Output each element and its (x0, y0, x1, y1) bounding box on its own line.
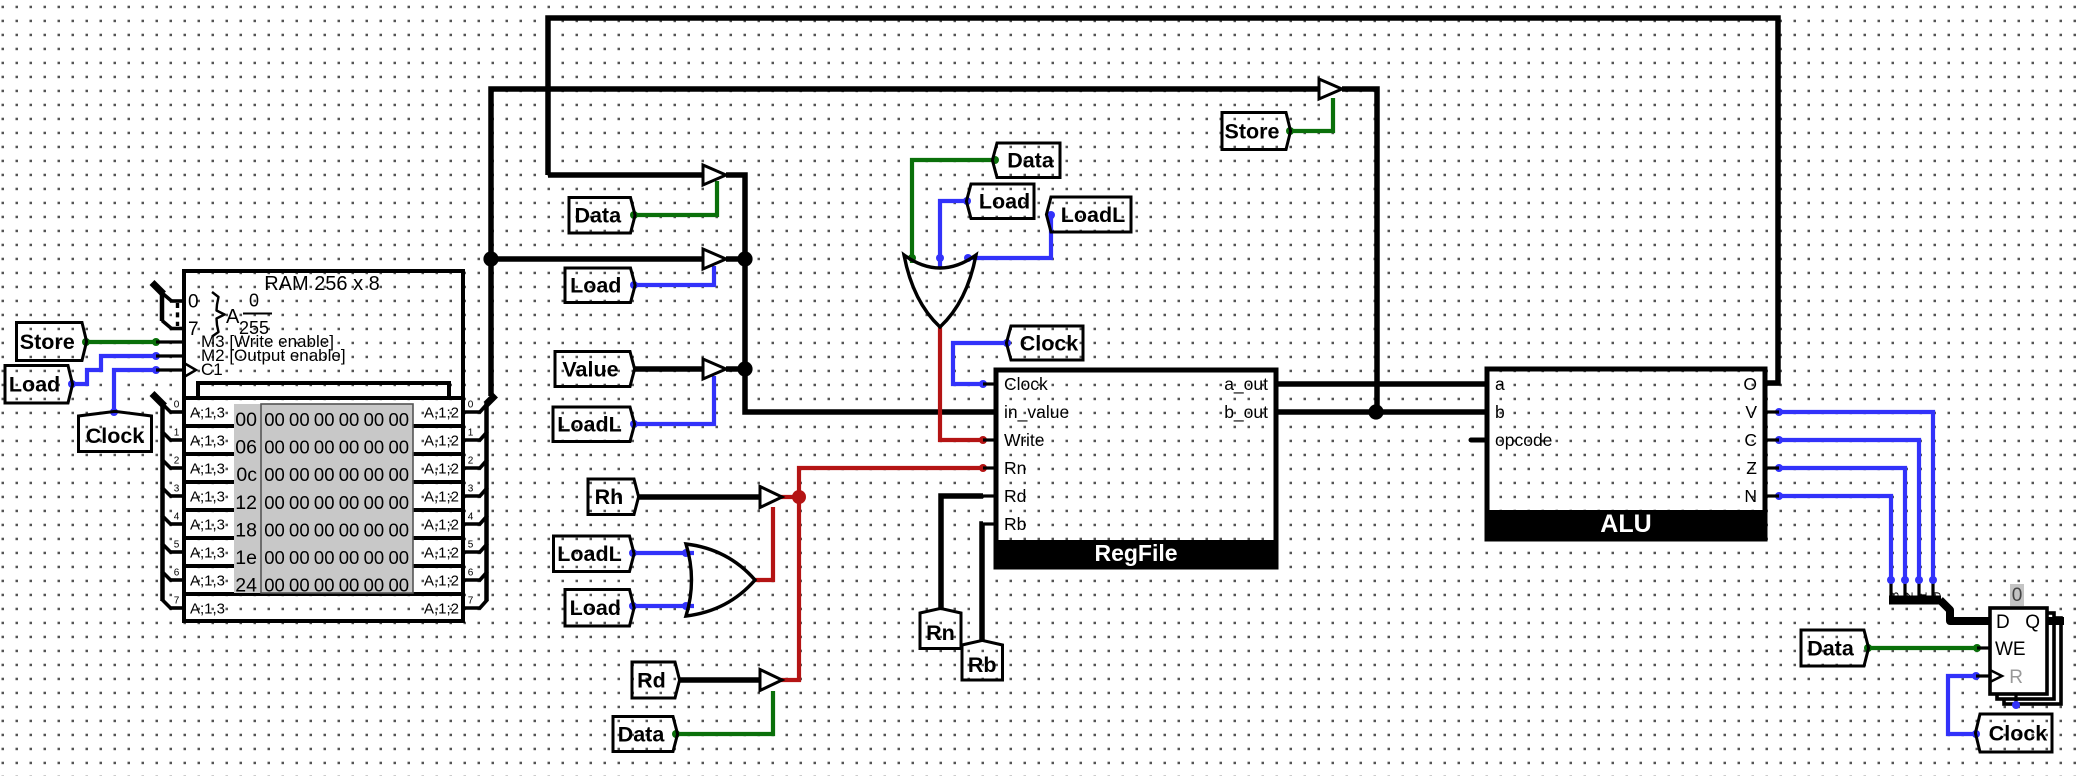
svg-text:WE: WE (1995, 639, 2026, 660)
RAM table data row 6 (264, 575, 409, 596)
register clock chevron (1990, 670, 2002, 682)
svg-text:00: 00 (364, 575, 385, 596)
RAM table data row 4 (264, 519, 409, 540)
RAM right splitter tab diagonal 4 (479, 516, 488, 526)
svg-text:00: 00 (264, 575, 285, 596)
RAM data block outline (184, 398, 463, 621)
RAM data row separator 0 (184, 424, 463, 428)
wire RAM data bus vertical from corner to splitter (491, 89, 1319, 396)
svg-text:A,1;2: A,1;2 (424, 601, 459, 618)
svg-text:Load: Load (570, 596, 621, 620)
svg-text:00: 00 (289, 464, 310, 485)
svg-text:Rh: Rh (595, 485, 624, 509)
svg-text:A;1,3: A;1,3 (190, 489, 225, 506)
splitter pin stub bit2 (1903, 580, 1906, 600)
driver T4 (Rh) (760, 487, 782, 508)
tunnel Rb (962, 640, 1003, 680)
RAM address splitter input stub (152, 283, 164, 295)
svg-text:00: 00 (235, 409, 257, 431)
splitter flags-to-bus bar (1889, 596, 1941, 605)
wire Value tunnel to driver T3 (634, 366, 703, 372)
tunnel Value (555, 352, 635, 387)
svg-text:00: 00 (314, 437, 335, 458)
RAM left splitter tab diagonal 6 (162, 571, 172, 581)
ALU block outline (1487, 369, 1765, 539)
svg-text:RAM 256 x 8: RAM 256 x 8 (264, 273, 380, 295)
wire Rh tunnel to driver T4 (637, 494, 760, 500)
svg-text:A;1,3: A;1,3 (190, 545, 225, 562)
svg-text:7: 7 (188, 319, 199, 340)
svg-text:00: 00 (364, 547, 385, 568)
svg-text:Load: Load (979, 190, 1030, 214)
svg-text:00: 00 (388, 547, 409, 568)
RAM data row separator 3 (184, 508, 463, 512)
wire blue ALU N flag to splitter bit3 (1779, 496, 1891, 580)
RAM right splitter pin 2 (464, 466, 481, 470)
svg-text:C1: C1 (201, 360, 223, 379)
wire red T4 output net to RegFile Rn and T5 (781, 468, 983, 497)
wire driver T1 output down to in_value (726, 175, 996, 412)
wire green Data to OR1 input (912, 160, 995, 263)
RegFile pin b_out stub (1276, 410, 1289, 413)
tunnel Load (5, 366, 73, 404)
svg-text:00: 00 (314, 409, 335, 430)
junction red net (792, 490, 806, 504)
RegFile pin Clock stub (983, 382, 996, 385)
RAM left splitter pin 7 (170, 606, 185, 610)
node Data pin dots (991, 156, 999, 164)
svg-text:00: 00 (339, 547, 360, 568)
svg-text:2: 2 (1902, 592, 1916, 599)
svg-text:00: 00 (314, 464, 335, 485)
wire green Data to T1 enable (634, 181, 717, 215)
wire blue ALU Z flag to splitter bit2 (1779, 468, 1905, 580)
RAM right splitter bar (484, 403, 489, 601)
svg-text:00: 00 (314, 575, 335, 596)
wire blue LoadL to T3 enable (634, 376, 714, 424)
wire blue Load to RAM M2 (72, 356, 156, 384)
driver T3 (LoadL enable) (703, 359, 726, 379)
tunnel Load (OR2 input) (565, 590, 634, 627)
RAM data row separator 5 (184, 564, 463, 568)
RAM left splitter tab diagonal 1 (162, 431, 172, 441)
svg-text:A,1;2: A,1;2 (424, 461, 459, 478)
node Load pin dots (68, 380, 76, 388)
node V pin dots (1775, 408, 1783, 416)
RAM right splitter pin 0 (464, 410, 481, 414)
RAM address splitter ellipsis (176, 303, 179, 326)
wire red OR2 output to T4 enable (755, 507, 773, 580)
svg-text:0c: 0c (236, 464, 257, 486)
svg-text:0: 0 (1930, 592, 1944, 599)
wire blue Clock to register clock (1948, 676, 1976, 734)
RAM right splitter tab diagonal 7 (479, 600, 488, 610)
wire driver T3 output to bus (726, 366, 745, 372)
node Write pin dot (979, 436, 987, 444)
RAM pin stub C1 (156, 368, 184, 371)
node C pin dots (1775, 436, 1783, 444)
RegFile pin Rn stub (983, 466, 996, 469)
tunnel Clock (79, 411, 152, 451)
tunnel Rd (632, 662, 680, 698)
RAM table data row 0 (264, 409, 409, 430)
wire RAM bus to driver T2 (491, 256, 703, 262)
tunnel Store (top right) (1222, 113, 1291, 150)
svg-text:A;1,3: A;1,3 (190, 433, 225, 450)
or-gate OR2 (LoadL+Load) (686, 544, 755, 616)
RAM left splitter pin 3 (170, 494, 185, 498)
tunnel Data (Rd drive) (613, 717, 678, 752)
wire blue Clock to RAM C1 (114, 370, 156, 412)
tunnel Store (17, 323, 87, 361)
svg-text:A;1,3: A;1,3 (190, 601, 225, 618)
svg-text:5: 5 (174, 540, 180, 551)
node Data pin dot (672, 730, 680, 738)
RAM pin stub M2 (156, 354, 184, 357)
svg-text:RegFile: RegFile (1094, 540, 1177, 566)
RAM right splitter tab diagonal 3 (479, 488, 488, 498)
svg-text:06: 06 (235, 437, 257, 459)
splitter pin stub bit3 (1889, 580, 1892, 600)
wire green Store to T6 enable (1290, 98, 1333, 131)
driver T5 (Rd) (760, 670, 782, 691)
RAM address brace (212, 292, 225, 337)
wire RegFile a_out to ALU a (1276, 381, 1487, 387)
RAM left splitter tab diagonal 4 (162, 515, 172, 525)
svg-text:R: R (2009, 667, 2023, 688)
node register clock pin dots (1972, 672, 1980, 680)
RAM left splitter pin 5 (170, 550, 185, 554)
tunnel Clock (RegFile) (1006, 326, 1083, 360)
wire blue Load to T2 enable (634, 266, 714, 285)
RAM left splitter pin 4 (170, 522, 185, 526)
ALU pin V stub (1765, 410, 1779, 413)
svg-text:A,1;2: A,1;2 (424, 405, 459, 422)
svg-text:6: 6 (468, 568, 474, 579)
RAM right splitter tab diagonal 5 (479, 544, 488, 554)
RegFile pin a_out stub (1276, 382, 1289, 385)
node Load pin dots (629, 602, 637, 610)
register shadow box 2 (2004, 618, 2061, 704)
svg-text:6: 6 (174, 568, 180, 579)
driver T6 (Store enable) (1319, 79, 1342, 99)
svg-text:Clock: Clock (1004, 374, 1048, 394)
svg-text:in_value: in_value (1004, 402, 1069, 423)
svg-text:Clock: Clock (1020, 331, 1079, 355)
RAM left splitter bar (160, 403, 165, 601)
tunnel Data (RAM write data) (569, 198, 635, 234)
RegFile pin Rb stub (983, 522, 996, 525)
svg-text:00: 00 (339, 437, 360, 458)
svg-text:3: 3 (468, 484, 474, 495)
wire red net down to T5 output (781, 497, 799, 680)
svg-text:LoadL: LoadL (557, 542, 622, 566)
RAM table data row 5 (264, 547, 409, 568)
RAM table data row 1 (264, 437, 409, 458)
RAM right splitter pin 4 (464, 522, 481, 526)
RAM data row separator 6 (184, 592, 463, 596)
svg-text:00: 00 (339, 464, 360, 485)
node register bottom pin dot (2012, 701, 2020, 709)
node WE pin dots (1864, 644, 1872, 652)
svg-text:00: 00 (364, 437, 385, 458)
RegFile block outline (996, 370, 1276, 567)
tunnel Rh (588, 479, 639, 515)
register clock stub (1976, 674, 1990, 677)
node Rn pin dot (979, 464, 987, 472)
svg-text:24: 24 (235, 575, 257, 597)
ALU pin O stub (1765, 382, 1779, 385)
RAM table data row 3 (264, 492, 409, 513)
tunnel LoadL (OR2 input) (554, 536, 635, 572)
svg-text:00: 00 (289, 437, 310, 458)
svg-text:00: 00 (289, 575, 310, 596)
RegFile pin in_value stub (983, 410, 996, 413)
svg-text:Z: Z (1746, 458, 1757, 478)
svg-text:Load: Load (9, 373, 60, 397)
wire blue Load to OR2 input (633, 604, 694, 608)
svg-text:A,1;2: A,1;2 (424, 489, 459, 506)
wire Rn tunnel to RegFile Rd pin (941, 496, 983, 610)
node Store pin dot (82, 338, 90, 346)
svg-text:00: 00 (388, 575, 409, 596)
driver T1 (Data enable) (703, 165, 726, 185)
svg-text:Store: Store (1225, 119, 1280, 143)
svg-text:Rd: Rd (637, 668, 666, 692)
svg-text:3: 3 (1888, 592, 1902, 599)
junction RAM bus / T2 input (483, 251, 498, 266)
RAM right splitter pin 1 (464, 438, 481, 442)
register bottom stub (2014, 694, 2017, 706)
register main box (1990, 608, 2047, 694)
svg-text:00: 00 (388, 519, 409, 540)
tunnel Load (RAM read enable) (565, 268, 635, 303)
svg-text:D: D (1996, 612, 2010, 633)
tunnel Clock (register) (1975, 714, 2052, 752)
node Clock pin dots (1003, 339, 1011, 347)
svg-text:Rb: Rb (968, 653, 997, 677)
RegFile pin Rd stub (983, 494, 996, 497)
register value display (2010, 584, 2024, 606)
svg-text:V: V (1745, 402, 1757, 422)
RAM right splitter tab diagonal 2 (479, 460, 488, 470)
RAM address splitter pin bit7 (170, 327, 185, 331)
RAM right splitter input stub (486, 395, 496, 405)
RAM address splitter tab diagonal bit7 (162, 321, 172, 329)
svg-text:b_out: b_out (1224, 402, 1268, 423)
register WE stub (1977, 646, 1990, 649)
svg-text:A,1;2: A,1;2 (424, 545, 459, 562)
RAM address splitter bar (160, 292, 165, 321)
svg-text:0: 0 (174, 400, 180, 411)
svg-text:Clock: Clock (1989, 721, 2048, 745)
node Store pin dot (1286, 127, 1294, 135)
junction T2 output bus (737, 251, 752, 266)
node N pin dots (1775, 492, 1783, 500)
svg-text:1: 1 (174, 428, 180, 439)
wire RegFile b_out to ALU b (1276, 409, 1487, 415)
svg-text:Load: Load (570, 274, 621, 298)
RAM C1 clock chevron (184, 363, 196, 377)
svg-text:Rd: Rd (1004, 486, 1026, 506)
svg-text:00: 00 (289, 409, 310, 430)
svg-text:7: 7 (174, 596, 180, 607)
RAM table data row 2 (264, 464, 409, 485)
svg-text:00: 00 (339, 575, 360, 596)
tunnel LoadL (OR1 input) (1046, 197, 1131, 232)
wire blue ALU V flag to splitter bit0 (1779, 412, 1933, 580)
svg-text:Rb: Rb (1004, 514, 1026, 534)
svg-text:A,1;2: A,1;2 (424, 517, 459, 534)
RAM contents table inner border (261, 404, 413, 593)
svg-text:LoadL: LoadL (1061, 203, 1126, 227)
svg-text:00: 00 (314, 519, 335, 540)
node Data pin dot (630, 211, 638, 219)
wire driver T6 output to ALU b junction (1342, 89, 1377, 412)
svg-text:00: 00 (289, 547, 310, 568)
svg-text:Data: Data (1807, 636, 1855, 660)
svg-text:C: C (1744, 430, 1757, 450)
ALU pin opcode stub (unconnected) (1471, 438, 1487, 443)
svg-text:a_out: a_out (1224, 374, 1268, 395)
svg-text:00: 00 (364, 464, 385, 485)
junction b_out / driver bus (1368, 404, 1383, 419)
RAM right splitter tab diagonal 6 (479, 572, 488, 582)
wire Rd tunnel to driver T5 (678, 677, 760, 683)
RAM data row separator 2 (184, 480, 463, 484)
svg-text:LoadL: LoadL (557, 413, 622, 437)
RAM 256x8 control block outline (184, 271, 463, 398)
svg-text:00: 00 (388, 409, 409, 430)
svg-text:00: 00 (264, 409, 285, 430)
RAM data row separator 1 (184, 452, 463, 456)
svg-text:1: 1 (468, 428, 474, 439)
wire blue LoadL to OR2 input (633, 551, 694, 555)
svg-text:00: 00 (289, 519, 310, 540)
register shadow box 1 (1997, 613, 2054, 699)
node LoadL pin dot (630, 420, 638, 428)
RAM right splitter pin 6 (464, 578, 481, 582)
svg-text:1: 1 (1916, 592, 1930, 599)
svg-text:Q: Q (2025, 612, 2040, 633)
svg-text:A;1,3: A;1,3 (190, 461, 225, 478)
svg-text:00: 00 (364, 492, 385, 513)
svg-text:A: A (226, 306, 240, 328)
svg-text:00: 00 (264, 547, 285, 568)
svg-text:0: 0 (2012, 585, 2023, 606)
tunnel Data (OR1 input) (992, 143, 1060, 178)
driver T2 (Load enable) (703, 249, 726, 269)
splitter bus wire to register D (1940, 600, 1990, 621)
RAM address splitter pin bit0 (170, 299, 185, 303)
svg-text:Value: Value (562, 357, 618, 381)
tunnel Load (OR1 input) (966, 184, 1034, 219)
svg-text:7: 7 (468, 596, 474, 607)
RAM right splitter tab diagonal 1 (479, 432, 488, 442)
wire blue ALU C flag to splitter bit1 (1779, 440, 1919, 580)
RAM right splitter tab diagonal 0 (479, 404, 488, 414)
wire Rb tunnel to RegFile Rb pin (982, 524, 983, 642)
svg-text:N: N (1744, 486, 1757, 506)
RAM left splitter tab diagonal 3 (162, 487, 172, 497)
RAM contents table background (234, 404, 413, 593)
svg-text:A,1;2: A,1;2 (424, 433, 459, 450)
tunnel Data (register WE) (1801, 630, 1869, 666)
node Load pin dot (630, 281, 638, 289)
svg-text:00: 00 (314, 492, 335, 513)
svg-text:0: 0 (188, 292, 199, 313)
svg-text:00: 00 (264, 492, 285, 513)
RAM address range fraction bar (243, 313, 272, 315)
wire top feedback bus from ALU O to driver (548, 18, 1778, 383)
svg-text:ALU: ALU (1600, 510, 1651, 538)
ALU label bar (1487, 510, 1765, 539)
svg-text:00: 00 (339, 519, 360, 540)
svg-text:00: 00 (364, 519, 385, 540)
RAM pin stub M3 (156, 340, 184, 343)
RAM left splitter tab diagonal 0 (162, 403, 172, 413)
svg-text:Store: Store (20, 330, 75, 354)
svg-text:3: 3 (174, 484, 180, 495)
RAM left splitter tab diagonal 7 (162, 599, 172, 609)
svg-text:00: 00 (388, 464, 409, 485)
svg-text:A,1;2: A,1;2 (424, 573, 459, 590)
ALU pin C stub (1765, 438, 1779, 441)
svg-text:A;1,3: A;1,3 (190, 405, 225, 422)
svg-text:00: 00 (339, 409, 360, 430)
svg-text:0: 0 (249, 291, 259, 311)
svg-text:b: b (1495, 402, 1505, 422)
svg-text:00: 00 (264, 437, 285, 458)
wire blue Clock to RegFile Clock (953, 343, 1007, 384)
svg-text:Data: Data (1007, 149, 1055, 173)
register Q output stub (2047, 617, 2064, 625)
svg-text:Write: Write (1004, 430, 1045, 450)
svg-text:18: 18 (235, 519, 257, 541)
node Clock pin dots (110, 408, 118, 416)
wire green Data to T5 enable (676, 691, 773, 734)
svg-text:00: 00 (314, 547, 335, 568)
RAM left splitter pin 1 (170, 438, 185, 442)
svg-text:0: 0 (468, 400, 474, 411)
svg-text:00: 00 (388, 492, 409, 513)
splitter pin stub bit1 (1917, 580, 1920, 600)
RegFile pin Write stub (983, 438, 996, 441)
svg-text:1e: 1e (235, 547, 257, 569)
wire blue Load to OR1 input (940, 201, 967, 269)
wire segment into driver T1 (548, 172, 703, 178)
RAM left splitter tab diagonal 5 (162, 543, 172, 553)
wire blue LoadL to OR1 input (968, 215, 1051, 258)
svg-text:Rn: Rn (926, 621, 955, 645)
svg-text:5: 5 (468, 540, 474, 551)
svg-text:Data: Data (574, 204, 622, 228)
wire driver T2 output to bus (726, 256, 745, 262)
svg-text:2: 2 (468, 456, 474, 467)
RAM right splitter pin 3 (464, 494, 481, 498)
RAM left splitter input stub (152, 394, 165, 407)
svg-text:A;1,3: A;1,3 (190, 573, 225, 590)
svg-text:00: 00 (388, 437, 409, 458)
svg-text:4: 4 (468, 512, 474, 523)
RAM data row separator 4 (184, 536, 463, 540)
RAM right splitter pin 7 (464, 606, 481, 610)
RegFile label bar (996, 540, 1276, 567)
svg-text:opcode: opcode (1495, 430, 1552, 450)
svg-text:00: 00 (264, 519, 285, 540)
svg-text:00: 00 (339, 492, 360, 513)
splitter pin stub bit0 (1931, 580, 1934, 600)
